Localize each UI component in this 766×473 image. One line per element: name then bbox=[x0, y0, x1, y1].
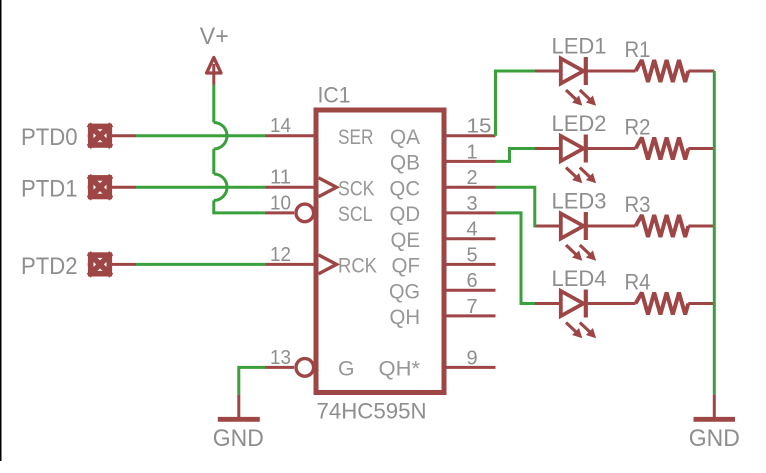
wire R4 to GND bus bbox=[688, 302, 714, 305]
diode LED4 triangle bbox=[561, 291, 584, 316]
wire V+ to SCL pin 10 bbox=[212, 211, 265, 214]
pin 14 line bbox=[266, 134, 317, 137]
wire net PTD0 bbox=[136, 134, 266, 137]
svg-text:LED3: LED3 bbox=[552, 188, 607, 213]
pin 11 clock wedge bbox=[319, 178, 337, 197]
wire net PTD2 bbox=[136, 263, 266, 266]
wire R3 to GND bus bbox=[688, 225, 714, 228]
ground symbol GND (left) bbox=[218, 394, 260, 419]
pin 9 line bbox=[444, 366, 496, 369]
LED3 anode wire bbox=[535, 225, 559, 228]
wire net PTD1 bbox=[136, 186, 266, 189]
svg-text:SCK: SCK bbox=[338, 177, 375, 200]
svg-text:IC1: IC1 bbox=[318, 82, 351, 107]
wire hop over PTD0 net bbox=[214, 123, 227, 149]
svg-text:74HC595N: 74HC595N bbox=[317, 398, 427, 423]
diode LED1 triangle bbox=[561, 59, 584, 84]
LED3 emission arrows bbox=[566, 245, 582, 261]
svg-text:6: 6 bbox=[467, 270, 478, 292]
pin 5 line bbox=[444, 263, 496, 266]
svg-text:V+: V+ bbox=[200, 23, 229, 50]
svg-text:10: 10 bbox=[270, 192, 291, 214]
pin 12 clock wedge bbox=[319, 255, 337, 274]
LED1 anode wire bbox=[535, 70, 559, 73]
LED4 emission arrows bbox=[566, 323, 582, 339]
svg-text:2: 2 bbox=[467, 167, 478, 189]
svg-text:GND: GND bbox=[689, 425, 740, 452]
svg-text:4: 4 bbox=[467, 219, 478, 241]
port symbol PTD2 (crossed square) bbox=[88, 253, 136, 276]
resistor R2 zigzag bbox=[636, 138, 689, 160]
svg-text:1: 1 bbox=[467, 141, 478, 163]
svg-text:14: 14 bbox=[270, 115, 291, 137]
LED1 emission arrows bbox=[566, 90, 582, 106]
pin 13 line bbox=[266, 366, 295, 369]
pin 2 line bbox=[444, 186, 496, 189]
pin 4 line bbox=[444, 237, 496, 240]
pin 1 line bbox=[444, 160, 496, 163]
svg-text:15: 15 bbox=[467, 116, 492, 138]
diode LED2 cathode bar bbox=[584, 135, 588, 163]
svg-text:PTD1: PTD1 bbox=[21, 176, 78, 203]
LED2 anode wire bbox=[535, 147, 559, 150]
svg-text:PTD0: PTD0 bbox=[21, 124, 78, 151]
screenshot left border line bbox=[0, 0, 2, 461]
resistor R1 zigzag bbox=[636, 60, 689, 82]
wire GND bus vertical bbox=[713, 71, 716, 394]
svg-text:13: 13 bbox=[270, 347, 291, 369]
svg-text:QE: QE bbox=[391, 229, 421, 252]
LED2 emission arrows bbox=[566, 168, 582, 184]
wire QA pin15 to LED1 bbox=[496, 71, 536, 136]
ground symbol GND (right) bbox=[694, 394, 736, 419]
svg-text:QH: QH bbox=[390, 306, 421, 329]
svg-text:QD: QD bbox=[390, 203, 421, 226]
port symbol PTD0 (crossed square) bbox=[88, 124, 136, 147]
diode LED3 triangle bbox=[561, 214, 584, 239]
svg-text:R4: R4 bbox=[625, 270, 651, 295]
svg-text:PTD2: PTD2 bbox=[21, 253, 78, 280]
pin 7 line bbox=[444, 314, 496, 317]
svg-text:SER: SER bbox=[338, 126, 374, 149]
svg-text:9: 9 bbox=[467, 347, 478, 369]
wire V+ vertical segment 1 bbox=[212, 85, 215, 123]
wire QC pin2 to LED3 bbox=[496, 187, 536, 226]
pin 12 line bbox=[266, 263, 317, 266]
svg-text:LED1: LED1 bbox=[552, 33, 607, 58]
svg-text:5: 5 bbox=[467, 244, 478, 266]
wire pin13 G to GND bbox=[239, 367, 266, 394]
svg-text:QB: QB bbox=[390, 152, 420, 175]
pin 10 inversion circle bbox=[296, 204, 314, 222]
svg-text:R2: R2 bbox=[625, 115, 651, 140]
svg-text:QH*: QH* bbox=[379, 358, 421, 381]
svg-text:RCK: RCK bbox=[338, 255, 377, 278]
op IC1 74HC595N shift register body bbox=[316, 110, 444, 393]
diode LED3 cathode bar bbox=[584, 212, 588, 240]
svg-text:11: 11 bbox=[270, 167, 291, 189]
svg-text:G: G bbox=[338, 358, 355, 381]
pin 13 inversion circle bbox=[296, 359, 314, 377]
svg-text:3: 3 bbox=[467, 193, 478, 215]
wire QB pin1 to LED2 bbox=[496, 149, 536, 162]
pin 10 line bbox=[266, 211, 295, 214]
svg-text:QG: QG bbox=[389, 280, 420, 303]
svg-text:QC: QC bbox=[390, 177, 421, 200]
svg-text:R1: R1 bbox=[625, 37, 651, 62]
svg-text:R3: R3 bbox=[625, 192, 651, 217]
pin 11 line bbox=[266, 186, 317, 189]
resistor R4 zigzag bbox=[636, 293, 689, 315]
wire LED2 cathode to R2 bbox=[586, 147, 636, 150]
wire V+ vertical segment 2 bbox=[212, 149, 215, 174]
svg-text:QA: QA bbox=[390, 126, 420, 149]
LED4 anode wire bbox=[535, 302, 559, 305]
pin 6 line bbox=[444, 289, 496, 292]
resistor R3 zigzag bbox=[636, 215, 689, 237]
port symbol PTD1 (crossed square) bbox=[88, 176, 136, 199]
svg-text:7: 7 bbox=[467, 296, 478, 318]
svg-text:12: 12 bbox=[270, 244, 291, 266]
svg-text:LED4: LED4 bbox=[552, 266, 607, 291]
diode LED4 cathode bar bbox=[584, 290, 588, 318]
svg-text:QF: QF bbox=[392, 255, 421, 278]
pin 15 line bbox=[444, 134, 496, 137]
svg-text:GND: GND bbox=[213, 425, 264, 452]
svg-text:LED2: LED2 bbox=[552, 111, 607, 136]
supply symbol V+ bbox=[207, 58, 221, 85]
wire QD pin3 to LED4 bbox=[496, 213, 536, 304]
wire LED3 cathode to R3 bbox=[586, 225, 636, 228]
wire hop over PTD1 net bbox=[214, 174, 227, 200]
wire LED1 cathode to R1 bbox=[586, 70, 636, 73]
diode LED1 cathode bar bbox=[584, 57, 588, 85]
diode LED2 triangle bbox=[561, 136, 584, 161]
wire V+ vertical segment 3 bbox=[212, 200, 215, 213]
wire R1 to GND bus bbox=[688, 70, 714, 73]
pin 3 line bbox=[444, 211, 496, 214]
svg-text:SCL: SCL bbox=[338, 203, 373, 226]
wire LED4 cathode to R4 bbox=[586, 302, 636, 305]
wire R2 to GND bus bbox=[688, 147, 714, 150]
